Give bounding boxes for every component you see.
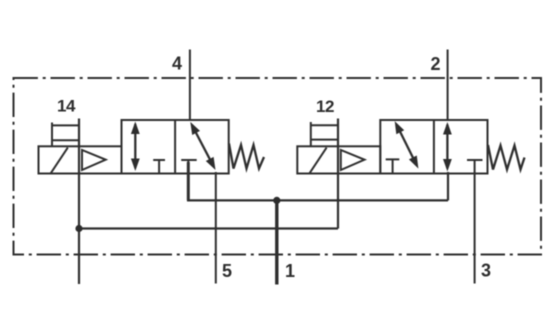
port 2 line	[447, 50, 449, 121]
pilot triangle (valve 12)	[341, 150, 365, 170]
V14 right square blocked port T (port 1)	[181, 160, 197, 174]
return spring (valve 14)	[229, 144, 264, 169]
svg-text:14: 14	[57, 97, 76, 116]
pilot triangle (valve 14)	[82, 150, 106, 170]
manifold enclosure (dash-dot frame)	[14, 78, 542, 255]
port 1 supply stub (thick)	[275, 200, 278, 284]
svg-text:2: 2	[431, 54, 441, 74]
port 4 line	[189, 50, 191, 121]
junction node on pilot wire	[75, 225, 82, 232]
port 3 line	[474, 172, 476, 284]
V12 left square blocked port T	[386, 159, 400, 173]
V14 left square blocked port T	[153, 160, 165, 174]
supply wire riser to valve V12 port 1	[447, 172, 449, 200]
svg-text:4: 4	[172, 54, 182, 74]
svg-text:5: 5	[222, 261, 232, 281]
svg-text:1: 1	[285, 261, 295, 281]
valve V14 body	[122, 120, 229, 174]
supply wire horizontal run	[187, 199, 448, 201]
V12 right square flow arrow 1-2 (double headed)	[446, 125, 448, 169]
V14 left square flow arrow (double headed)	[134, 124, 136, 168]
V14 right square diagonal flow arrow 4-5	[193, 126, 214, 166]
pilot symbol box 12	[311, 122, 338, 146]
V12 left square diagonal flow arrow	[397, 125, 417, 164]
solenoid slash (valve 14)	[51, 148, 68, 174]
port 5 line	[215, 172, 217, 284]
svg-text:12: 12	[316, 97, 334, 116]
supply wire from valve V14 port 1 (vertical drop)	[187, 162, 190, 200]
pilot line 12 (vertical through right solenoid down to pilot wire)	[337, 119, 339, 229]
solenoid slash (valve 12)	[310, 148, 327, 174]
pilot wire 14-to-12 (horizontal)	[79, 227, 338, 229]
svg-text:3: 3	[481, 261, 491, 281]
valve V12 body	[380, 120, 487, 174]
solenoid coil box (valve 14)	[39, 146, 122, 173]
V12 right square blocked port T (port 3)	[467, 160, 483, 174]
return spring (valve 12)	[488, 145, 525, 170]
valve V14 centre divider	[174, 120, 176, 174]
solenoid coil box (valve 12)	[297, 146, 380, 173]
valve V12 centre divider	[433, 120, 435, 174]
junction node port 1	[273, 197, 280, 204]
pilot line 14 (vertical through solenoid, down past frame)	[78, 119, 80, 285]
pilot symbol box 14	[52, 123, 79, 147]
